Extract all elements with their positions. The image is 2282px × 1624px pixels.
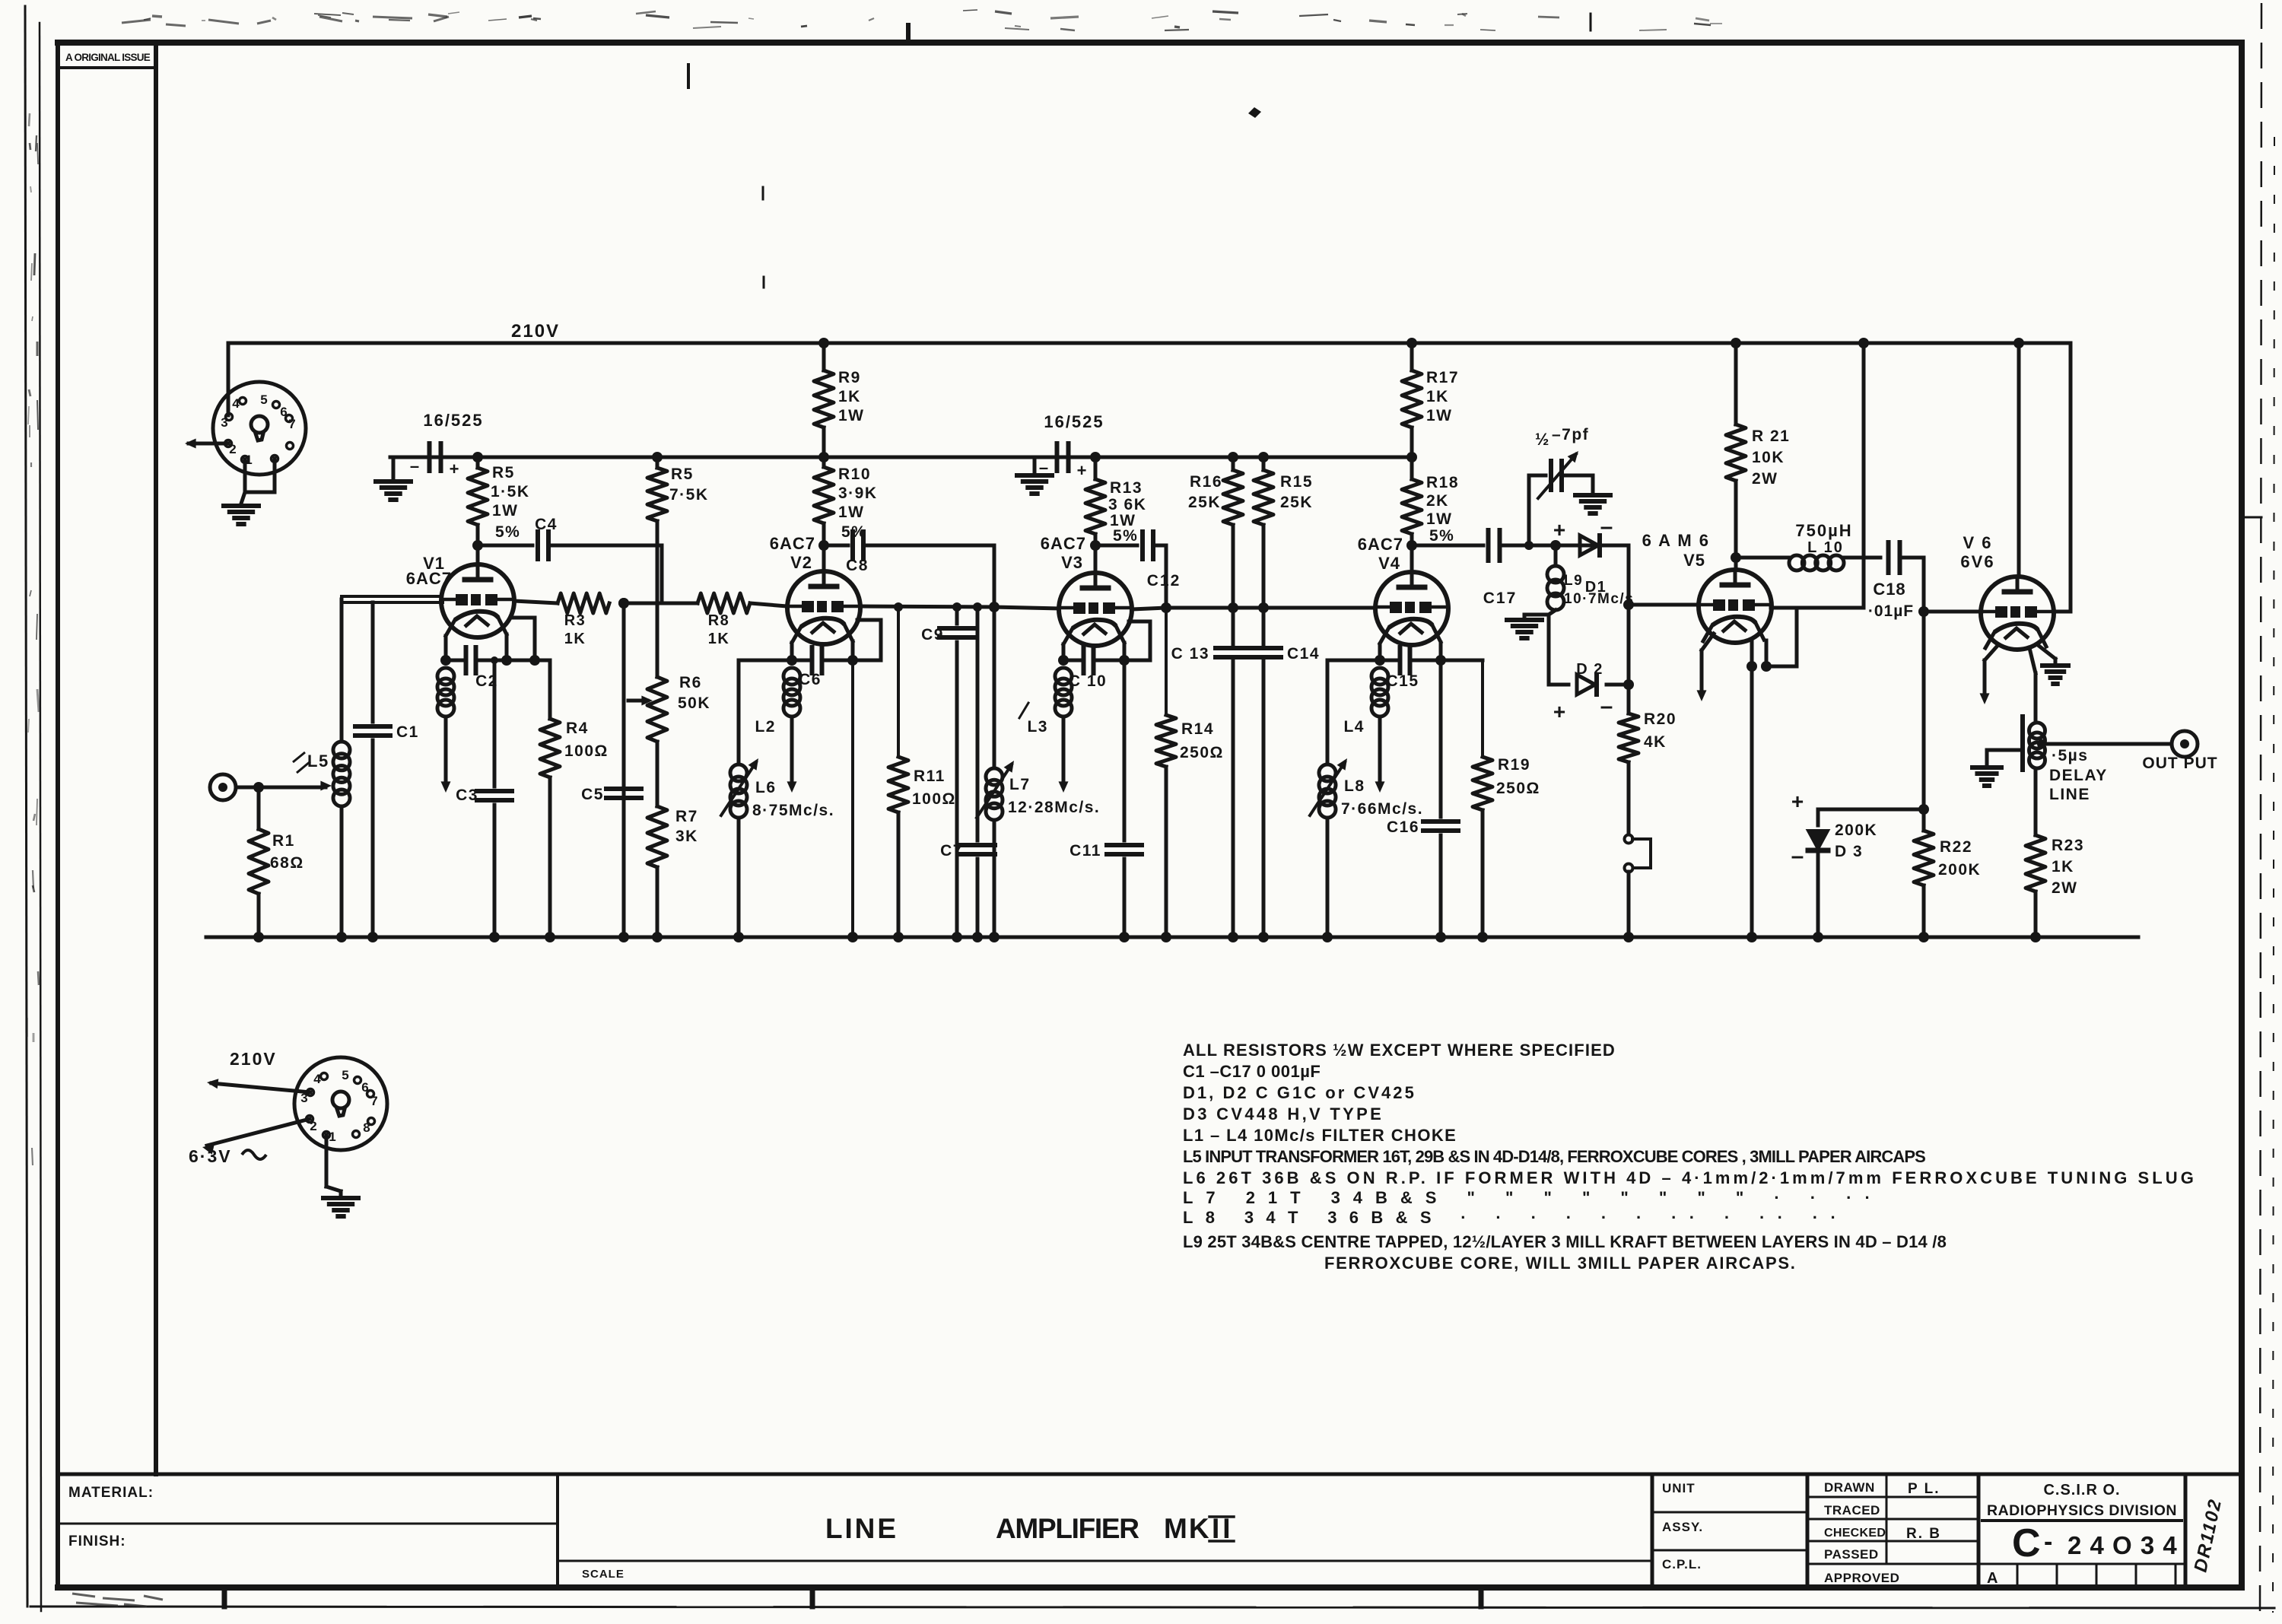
svg-text:L6: L6 (755, 779, 777, 796)
wire delay line to output (2042, 742, 2172, 746)
svg-text:25K: 25K (1188, 494, 1221, 511)
svg-text:C1 –C17 0 001µF: C1 –C17 0 001µF (1183, 1062, 1321, 1081)
svg-text:L2: L2 (755, 718, 776, 736)
diode D3 (1808, 831, 1828, 850)
resistor R23 (2026, 835, 2045, 942)
svg-text:8: 8 (363, 1120, 370, 1135)
svg-text:6: 6 (280, 405, 287, 419)
wire V4 plate lead (1410, 545, 1414, 572)
svg-text:68Ω: 68Ω (270, 854, 304, 872)
svg-text:D3 CV448 H,V TYPE: D3 CV448 H,V TYPE (1183, 1104, 1382, 1123)
label delay line (2049, 747, 2108, 803)
svg-text:L7: L7 (1009, 776, 1031, 793)
inductor L2 filter choke (783, 668, 800, 793)
svg-text:½: ½ (1535, 430, 1550, 449)
svg-text:C4: C4 (535, 516, 558, 533)
svg-text:R20: R20 (1644, 710, 1677, 728)
title block scale strip (558, 1561, 1652, 1581)
svg-text:C16: C16 (1387, 818, 1419, 836)
svg-text:1K: 1K (838, 388, 861, 405)
inductor L3 filter choke (1055, 668, 1072, 793)
drawing number DR1102 (2190, 1497, 2226, 1575)
title block top line (58, 1473, 2242, 1476)
svg-text:–: – (1600, 694, 1613, 719)
capacitor C18 (1864, 542, 1924, 573)
svg-text:–: – (1791, 844, 1804, 869)
wire D3 to ground bus (1813, 852, 1823, 942)
node trimmer tap (1524, 541, 1534, 550)
svg-text:-: - (2044, 1527, 2052, 1556)
label D1 (1585, 579, 1607, 596)
capacitor C6 (792, 647, 853, 673)
title block revision squares (1978, 1564, 2185, 1587)
resistor R5 (468, 457, 488, 545)
title block drawn/traced column (1807, 1474, 1978, 1587)
svg-text:1K: 1K (708, 631, 730, 647)
label L3 (1019, 703, 1048, 736)
svg-text:6AC7: 6AC7 (1041, 534, 1086, 553)
label 16/525 no.2 (1044, 412, 1104, 431)
ground 16/525 no.2 (1017, 475, 1052, 494)
label R18 (1426, 474, 1459, 545)
ground 16/525 no.1 (376, 481, 411, 500)
resistor R8 (624, 593, 750, 613)
resistor R4 (540, 660, 560, 942)
resistor R20 (1619, 685, 1638, 834)
wire V3 cathode right (1119, 643, 1130, 666)
wire V6 screen feed (2054, 343, 2071, 612)
wire V5 screen feed (1771, 343, 1864, 608)
label C7 (940, 842, 963, 860)
node screen bus R18 (1406, 452, 1417, 462)
node C7 top (973, 602, 982, 612)
svg-text:R22: R22 (1940, 838, 1972, 856)
svg-text:2: 2 (310, 1119, 316, 1133)
label R15 (1280, 473, 1313, 511)
svg-text:1W: 1W (1426, 510, 1453, 528)
wire V2 cathode right (847, 641, 858, 666)
label C11 (1069, 842, 1101, 860)
resistor R11 (888, 602, 908, 942)
scan mark diamond (1248, 107, 1261, 118)
svg-text:R10: R10 (838, 466, 871, 483)
svg-text:R14: R14 (1181, 720, 1214, 738)
svg-text:A ORIGINAL ISSUE: A ORIGINAL ISSUE (65, 52, 151, 63)
label R17 (1426, 369, 1459, 424)
diode D1 (1580, 536, 1629, 555)
svg-text:L5 INPUT TRANSFORMER 16T,: L5 INPUT TRANSFORMER 16T, 29B &S IN 4D-D… (1183, 1147, 1927, 1166)
svg-text:TRACED: TRACED (1824, 1503, 1880, 1518)
delay line transformer (1987, 717, 2046, 770)
wire V4 cathode left (1375, 644, 1385, 666)
svg-text:2W: 2W (2052, 879, 2078, 897)
svg-text:–7pf: –7pf (1552, 426, 1589, 443)
svg-text:C14: C14 (1287, 645, 1320, 663)
ground trimmer (1575, 495, 1610, 513)
node V2 plate (818, 540, 829, 551)
label D3 polarity (1791, 790, 1804, 869)
svg-text:R5: R5 (492, 464, 515, 481)
svg-text:200K: 200K (1938, 861, 1981, 879)
svg-text:5: 5 (342, 1068, 348, 1082)
resistor R9 (814, 343, 834, 457)
svg-text:C6: C6 (799, 671, 822, 688)
label V5 (1642, 531, 1710, 570)
svg-text:2W: 2W (1752, 470, 1778, 488)
node label 210V (511, 321, 560, 342)
wire V5 cathode pins (1746, 639, 1772, 672)
svg-text:2 4 O 3 4: 2 4 O 3 4 (2067, 1531, 2178, 1559)
label L4 (1343, 718, 1365, 736)
wire R1 leads (253, 787, 264, 942)
svg-text:D1: D1 (1585, 579, 1607, 596)
svg-text:R5: R5 (671, 466, 694, 483)
title text LINE AMPLIFIER MK II (825, 1513, 1234, 1544)
svg-text:C15: C15 (1386, 672, 1419, 690)
svg-text:ASSY.: ASSY. (1662, 1520, 1703, 1534)
svg-text:R. B: R. B (1906, 1526, 1941, 1542)
svg-text:C.S.I.R O.: C.S.I.R O. (2043, 1482, 2120, 1498)
svg-text:250Ω: 250Ω (1496, 780, 1540, 797)
svg-text:R3: R3 (564, 612, 586, 629)
label R20 (1644, 710, 1677, 751)
svg-text:2: 2 (229, 442, 236, 456)
svg-text:7: 7 (370, 1094, 377, 1108)
wire C8 to V3 grid (860, 545, 1059, 612)
svg-text:L9 25T 34B&S CENTRE TA: L9 25T 34B&S CENTRE TAPPED, 12½/LAYER 3 … (1183, 1232, 1947, 1251)
svg-text:V4: V4 (1378, 554, 1400, 573)
svg-text:6AC7: 6AC7 (406, 569, 452, 588)
label L7 (1008, 776, 1100, 816)
resistor R10 (814, 457, 834, 545)
tube V4 6AC7 (1375, 572, 1448, 645)
notes component table (1183, 1041, 2195, 1273)
svg-text:C.P.L.: C.P.L. (1662, 1557, 1702, 1572)
label C12 (1147, 572, 1181, 590)
wire P1 pin2 arrow (185, 439, 228, 449)
wire V6 cathode right leg (2038, 645, 2055, 663)
label C18 (1868, 580, 1914, 620)
label output (2142, 755, 2217, 772)
svg-text:L9: L9 (1564, 573, 1583, 589)
svg-text:1K: 1K (1426, 388, 1449, 405)
ground L9 (1507, 620, 1542, 638)
resistor R21 (1726, 343, 1746, 558)
svg-text:–: – (1600, 514, 1613, 539)
svg-text:MK: MK (1164, 1513, 1211, 1544)
svg-text:D1, D2 C G1C or CV425: D1, D2 C G1C or CV425 (1183, 1083, 1415, 1102)
svg-text:1·5K: 1·5K (491, 483, 530, 501)
node input junction (253, 782, 264, 793)
resistor R14 (1156, 608, 1176, 942)
svg-text:R9: R9 (838, 369, 861, 386)
inductor L8 tuned 7.66Mc/s (1310, 660, 1380, 942)
svg-text:–: – (410, 456, 419, 475)
wire V1 plate lead (476, 545, 480, 564)
label R5b (669, 466, 709, 504)
svg-text:C 10: C 10 (1069, 672, 1107, 690)
label R4 (564, 720, 609, 760)
wire V1 cathode right (501, 634, 512, 666)
svg-text:1W: 1W (838, 407, 865, 424)
svg-text:LINE: LINE (825, 1513, 899, 1544)
svg-text:OUT PUT: OUT PUT (2142, 755, 2217, 772)
scan smudges left edge (27, 113, 39, 1165)
label R23 (2052, 837, 2084, 897)
svg-text:5: 5 (260, 392, 267, 407)
label R9 (838, 369, 865, 424)
wire grid divider chain (618, 603, 629, 942)
title block material/finish box (58, 1474, 558, 1587)
inductor L6 tuned 8.75Mc/s (721, 660, 792, 942)
label C8 (846, 557, 869, 574)
svg-text:C7: C7 (940, 842, 963, 860)
svg-text:V3: V3 (1061, 553, 1083, 572)
svg-text:100Ω: 100Ω (912, 790, 956, 808)
capacitor C17 (1412, 530, 1629, 561)
svg-text:C 13: C 13 (1171, 645, 1209, 663)
svg-text:10K: 10K (1752, 449, 1785, 466)
label C17 (1483, 590, 1518, 607)
label R6 (678, 674, 710, 712)
svg-text:R6: R6 (679, 674, 702, 691)
wire V5 screen box (1766, 608, 1797, 666)
label L5 (307, 752, 329, 771)
label L9 (1564, 573, 1634, 607)
wire V5 cathode arrow (1697, 634, 1715, 701)
label R7 (675, 808, 698, 845)
svg-text:V2: V2 (790, 553, 812, 572)
tube V3 6AC7 (1059, 573, 1132, 646)
svg-text:200K: 200K (1835, 822, 1877, 839)
capacitor C10 (1063, 647, 1124, 673)
svg-text:MATERIAL:: MATERIAL: (68, 1485, 154, 1501)
svg-text:L1 – L4 10Mc/s FILTER CHOK: L1 – L4 10Mc/s FILTER CHOKE (1183, 1126, 1457, 1145)
svg-text:210V: 210V (511, 321, 560, 342)
potentiometer R6 50K (628, 677, 667, 806)
wire V6 grid (1924, 610, 1982, 614)
label R19 (1496, 756, 1540, 797)
svg-text:7·66Mc/s.: 7·66Mc/s. (1341, 800, 1423, 818)
capacitor C7 (960, 607, 995, 942)
node R13 top (1090, 452, 1101, 462)
svg-text:C1: C1 (396, 723, 419, 741)
svg-text:V5: V5 (1683, 551, 1705, 570)
border fold tick top (906, 25, 911, 43)
inductor L4 filter choke (1371, 668, 1388, 793)
label V4 (1358, 535, 1403, 573)
svg-text:6: 6 (361, 1080, 368, 1095)
label R5 (491, 464, 530, 541)
svg-text:A: A (1987, 1570, 1998, 1587)
label D1 polarity (1553, 514, 1613, 542)
svg-text:D 3: D 3 (1835, 843, 1863, 860)
svg-text:+: + (450, 459, 459, 478)
svg-text:3·9K: 3·9K (838, 485, 878, 502)
svg-text:7: 7 (288, 417, 295, 431)
tube V2 6AC7 (787, 571, 860, 644)
trimmer capacitor 1/2-7pf (1538, 451, 1593, 498)
svg-text:L8: L8 (1344, 777, 1365, 795)
label 16/525 no.1 (423, 411, 483, 430)
svg-text:12·28Mc/s.: 12·28Mc/s. (1008, 799, 1100, 816)
resistor R17 (1402, 343, 1422, 457)
svg-text:1W: 1W (838, 504, 865, 521)
svg-text:3 6K: 3 6K (1108, 496, 1146, 513)
ground P1 (224, 506, 259, 524)
svg-text:1K: 1K (564, 631, 586, 647)
wire C12 to V4 grid (1132, 545, 1375, 613)
label C4 (535, 516, 558, 533)
node screen bus R5b (652, 452, 663, 462)
svg-text:SCALE: SCALE (582, 1568, 625, 1581)
label R8 (708, 612, 730, 647)
wire V6 cathode arrow (1980, 647, 1998, 704)
label V3 (1041, 534, 1086, 572)
svg-text:R16: R16 (1190, 473, 1222, 491)
svg-text:1W: 1W (1426, 407, 1453, 424)
svg-text:R8: R8 (708, 612, 730, 629)
ground V6 (2042, 666, 2068, 684)
node V3 plate (1090, 540, 1101, 551)
node label 6.3V (189, 1146, 266, 1166)
wire V5 plate lead (1734, 558, 1738, 570)
svg-text:25K: 25K (1280, 494, 1313, 511)
label V1 (406, 554, 452, 588)
svg-text:PASSED: PASSED (1824, 1547, 1879, 1562)
label C10 (1069, 672, 1107, 690)
svg-text:LINE: LINE (2049, 786, 2090, 803)
svg-text:C11: C11 (1069, 842, 1101, 860)
tube V1 6AC7 (441, 564, 514, 637)
svg-text:V 6: V 6 (1963, 533, 1992, 552)
wire detector to V5 grid (1629, 603, 1699, 607)
wire V3 cathode left (1058, 644, 1069, 666)
resistor R13 (1085, 457, 1105, 545)
svg-text:L8 34T 36B&S · ·: L8 34T 36B&S · · · · · · ·· · ·· ·· (1183, 1208, 1837, 1227)
node R5 top (472, 452, 483, 462)
resistor R3 (558, 593, 609, 613)
capacitor C11 (1107, 660, 1142, 942)
terminal output (2172, 731, 2198, 757)
revision box A ORIGINAL ISSUE (60, 52, 156, 68)
border bottom outer edge (30, 1587, 2274, 1608)
label C16 (1387, 818, 1419, 836)
capacitor C9 (939, 607, 974, 942)
svg-text:C18: C18 (1873, 580, 1905, 599)
svg-text:R17: R17 (1426, 369, 1459, 386)
svg-text:16/525: 16/525 (423, 411, 483, 430)
svg-text:6AC7: 6AC7 (770, 534, 815, 553)
svg-text:5%: 5% (1429, 527, 1454, 545)
label D2 polarity (1553, 694, 1613, 723)
inductor L9 10.7Mc/s (1524, 545, 1564, 618)
capacitor C3 (477, 656, 512, 942)
label C14 (1287, 645, 1320, 663)
wire ground bus (206, 936, 2138, 939)
svg-text:ALL RESISTORS ½W EXCEPT W: ALL RESISTORS ½W EXCEPT WHERE SPECIFIED (1183, 1041, 1616, 1060)
svg-text:CHECKED: CHECKED (1824, 1527, 1886, 1540)
svg-text:50K: 50K (678, 694, 710, 712)
node 210V R21 (1731, 338, 1741, 348)
node screen bus R10 (818, 452, 829, 462)
wire 210V bus (228, 342, 2071, 345)
svg-text:C17: C17 (1483, 590, 1518, 607)
wire V2 suppressor tie (853, 620, 881, 660)
border frame outer-left paper edge (25, 6, 41, 1611)
resistor R22 (1914, 809, 1934, 942)
label R13 (1108, 479, 1146, 545)
diode D2 (1549, 675, 1634, 694)
inductor L1 filter choke (437, 668, 454, 793)
svg-text:FINISH:: FINISH: (68, 1533, 126, 1549)
svg-text:C: C (2012, 1521, 2041, 1565)
label C15 (1386, 672, 1419, 690)
svg-text:6 A M 6: 6 A M 6 (1642, 531, 1710, 550)
tube socket P1 (213, 382, 306, 475)
node 210V R17 (1406, 338, 1417, 348)
svg-text:RADIOPHYSICS DIVISION: RADIOPHYSICS DIVISION (1987, 1502, 2177, 1519)
svg-text:2K: 2K (1426, 492, 1449, 510)
label V6 (1960, 533, 1994, 571)
svg-text:UNIT: UNIT (1662, 1481, 1696, 1495)
svg-text:5%: 5% (1113, 527, 1138, 545)
wire P2 pin2 arrow 6.3V (202, 1119, 310, 1155)
ground delay line (1972, 768, 2001, 786)
node label 210V heater (230, 1049, 277, 1069)
label C9 (921, 626, 944, 644)
wire V6 to delay line (2029, 648, 2036, 723)
wire V6 plate feed (2017, 343, 2021, 577)
svg-text:·5µs: ·5µs (2052, 747, 2088, 764)
wire trimmer lead (1529, 475, 1546, 545)
label C13 (1171, 645, 1209, 663)
svg-text:210V: 210V (230, 1049, 277, 1069)
wire R8 to V2 grid (750, 603, 787, 606)
label R22 (1938, 838, 1981, 879)
inductor L5 input transformer (293, 599, 350, 942)
resistor R19 (1441, 660, 1492, 942)
svg-text:3K: 3K (675, 828, 698, 845)
svg-text:L7 21T 34B&S " ": L7 21T 34B&S " " " " " " " " · · ·· (1183, 1188, 1871, 1207)
svg-text:250Ω: 250Ω (1180, 744, 1224, 761)
label R10 (838, 466, 878, 541)
label L6 (752, 779, 834, 819)
label L10 (1795, 521, 1852, 556)
node 210V R9 (818, 338, 829, 348)
svg-text:1K: 1K (2052, 858, 2074, 876)
svg-text:C5: C5 (581, 786, 604, 803)
svg-text:1W: 1W (492, 502, 519, 520)
wire delay line to R23 (2034, 768, 2038, 835)
tube V6 6V6 (1981, 577, 2054, 650)
tube socket P2 (294, 1057, 387, 1150)
capacitor 16/525 no.1 (393, 443, 478, 479)
tube V5 6AM6 (1699, 570, 1772, 643)
capacitor C4 (478, 532, 662, 559)
wire 210V bus left drop to P1 (227, 343, 230, 415)
svg-text:FERROXCUBE CORE, WILL 3MIL: FERROXCUBE CORE, WILL 3MILL PAPER AIRCAP… (1324, 1254, 1796, 1273)
wire P1 ground leads (241, 459, 275, 504)
label C5 (581, 786, 604, 803)
border frame right outer lines (2242, 3, 2274, 1617)
terminal input (210, 774, 236, 800)
resistor R1 (249, 829, 269, 894)
svg-text:L5: L5 (307, 752, 329, 771)
resistor R7 (647, 806, 667, 942)
svg-text:C12: C12 (1147, 572, 1181, 590)
wire V2 cathode left (787, 643, 797, 666)
